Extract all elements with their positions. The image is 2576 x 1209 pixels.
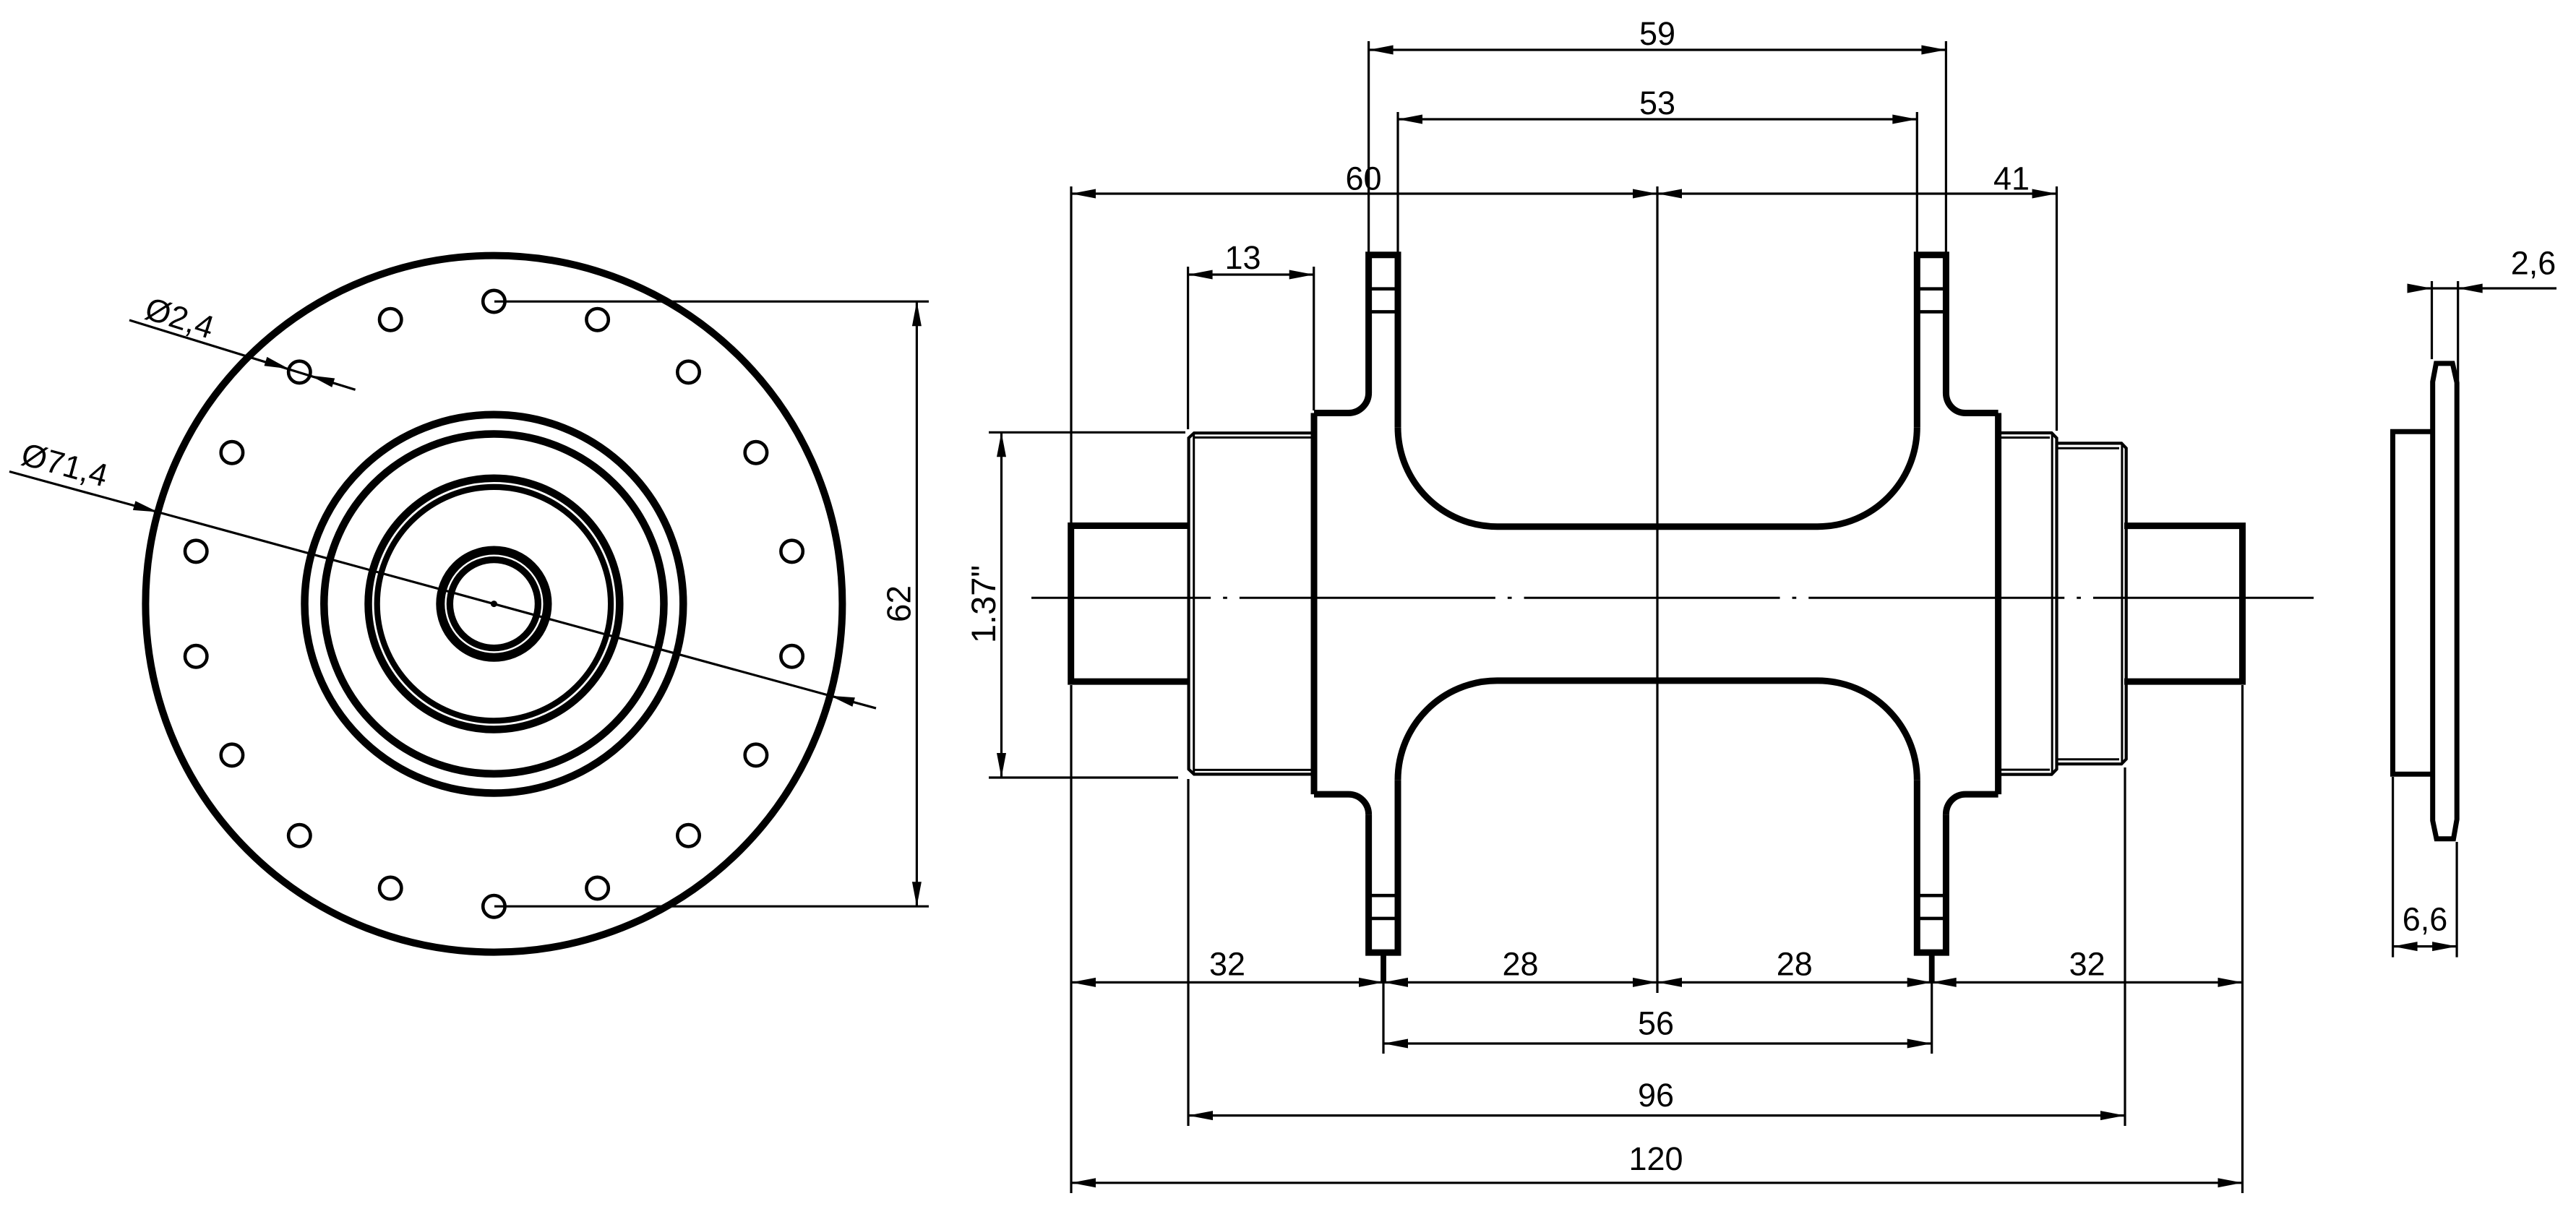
svg-text:1.37": 1.37" [964, 565, 1003, 643]
svg-text:2,6: 2,6 [2511, 245, 2556, 282]
svg-text:53: 53 [1639, 85, 1675, 121]
svg-text:96: 96 [1638, 1077, 1674, 1114]
svg-text:62: 62 [880, 585, 918, 622]
svg-text:120: 120 [1628, 1140, 1683, 1177]
svg-text:32: 32 [2069, 946, 2105, 983]
svg-text:32: 32 [1209, 946, 1245, 983]
svg-text:41: 41 [1993, 160, 2030, 197]
svg-text:59: 59 [1639, 15, 1675, 52]
svg-text:28: 28 [1777, 946, 1813, 983]
svg-text:28: 28 [1502, 946, 1538, 983]
svg-text:60: 60 [1345, 160, 1381, 197]
svg-text:56: 56 [1638, 1005, 1674, 1042]
svg-text:13: 13 [1224, 239, 1261, 276]
svg-text:6,6: 6,6 [2403, 901, 2448, 938]
